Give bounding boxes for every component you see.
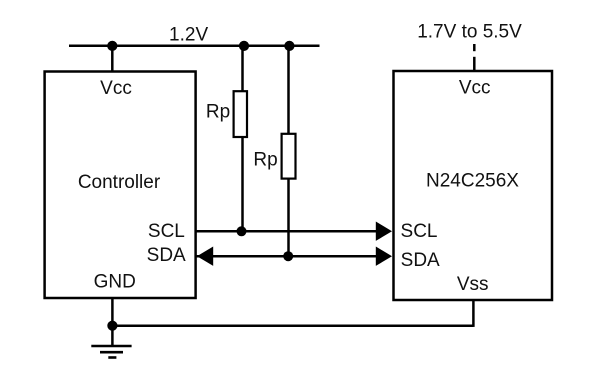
resistor Rp (SCL pull-up) body [234, 91, 247, 137]
junction dot SDA / pull-up 2 [283, 251, 293, 261]
arrowhead SDA into N24C256X [376, 247, 392, 266]
resistor Rp (SDA pull-up) body [282, 134, 296, 179]
wire dashed Vcc stub to N24C256X [473, 44, 476, 51]
svg-text:Rp: Rp [206, 101, 230, 122]
wire GND stub from controller [111, 298, 114, 346]
ground symbol bar 1 [91, 345, 131, 348]
svg-text:N24C256X: N24C256X [426, 171, 519, 192]
arrowhead SCL into N24C256X [376, 222, 392, 241]
svg-text:GND: GND [94, 272, 136, 293]
svg-text:SCL: SCL [148, 221, 185, 242]
svg-text:Controller: Controller [78, 172, 161, 193]
svg-text:SCL: SCL [401, 221, 438, 242]
junction dot SCL / pull-up 1 [237, 226, 247, 236]
wire SDA net [196, 255, 390, 258]
svg-text:SDA: SDA [147, 245, 186, 266]
wire ground bus horizontal [112, 324, 473, 327]
svg-text:Vss: Vss [457, 274, 489, 295]
svg-text:Rp: Rp [253, 149, 277, 170]
junction dot on rail at column 2 [284, 41, 294, 51]
ground symbol bar 3 [108, 356, 116, 359]
ground symbol bar 2 [100, 351, 123, 354]
junction dot on rail at column 1 [239, 41, 249, 51]
junction dot ground node [107, 321, 117, 331]
svg-text:Vcc: Vcc [459, 78, 491, 99]
wire pull-up column 2 (rail to SDA) [287, 46, 290, 256]
arrowhead SDA into controller [197, 247, 213, 266]
wire Vss stub from N24C256X [472, 300, 475, 327]
svg-text:SDA: SDA [401, 250, 440, 271]
wire SCL net [196, 230, 390, 233]
IC U1 Controller box [45, 72, 196, 299]
IC U2 N24C256X box [394, 71, 553, 300]
wire pull-up column 1 (rail to SCL) [241, 46, 244, 231]
svg-text:Vcc: Vcc [100, 78, 132, 99]
wire controller Vcc stub [111, 46, 114, 72]
svg-text:1.7V to 5.5V: 1.7V to 5.5V [417, 22, 522, 43]
junction dot on rail at controller Vcc [107, 41, 117, 51]
svg-text:1.2V: 1.2V [169, 25, 208, 46]
node VDD 1.2V rail (top horizontal wire) [69, 45, 320, 48]
